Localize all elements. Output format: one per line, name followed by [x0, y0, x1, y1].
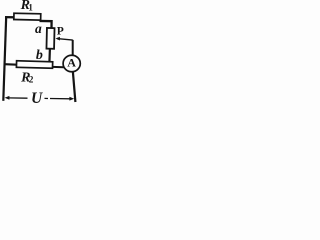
resistor R1: [14, 13, 41, 20]
svg-text:2: 2: [29, 74, 34, 84]
svg-text:1: 1: [28, 3, 33, 13]
wire P down to ammeter: [72, 40, 74, 55]
slider P arrow line: [57, 39, 73, 41]
svg-text:a: a: [35, 21, 42, 36]
wire b stub down to R2: [48, 49, 51, 63]
wire R2 left: [5, 63, 17, 66]
svg-text:P: P: [57, 26, 64, 38]
ammeter A circle: [63, 55, 80, 72]
svg-text:b: b: [36, 48, 43, 63]
dimension arrowhead right: [69, 97, 74, 101]
dimension arrowhead left: [5, 96, 10, 100]
wire top right of R1: [40, 20, 53, 23]
resistor R2: [16, 61, 52, 69]
dimension line right dash: [45, 97, 49, 99]
svg-text:U: U: [31, 90, 43, 107]
wire top left of R1: [5, 16, 15, 18]
svg-text:A: A: [67, 56, 76, 70]
wire left vertical: [3, 16, 6, 100]
dimension line right segment: [50, 98, 71, 100]
rheostat R (a-b box): [46, 28, 54, 49]
wire ammeter bottom lead: [73, 72, 76, 102]
dimension line left segment: [8, 97, 28, 99]
slider arrowhead (points left at rheostat): [56, 37, 60, 41]
wire right vertical (top): [50, 20, 52, 29]
wire R2 right to ammeter: [53, 66, 64, 68]
